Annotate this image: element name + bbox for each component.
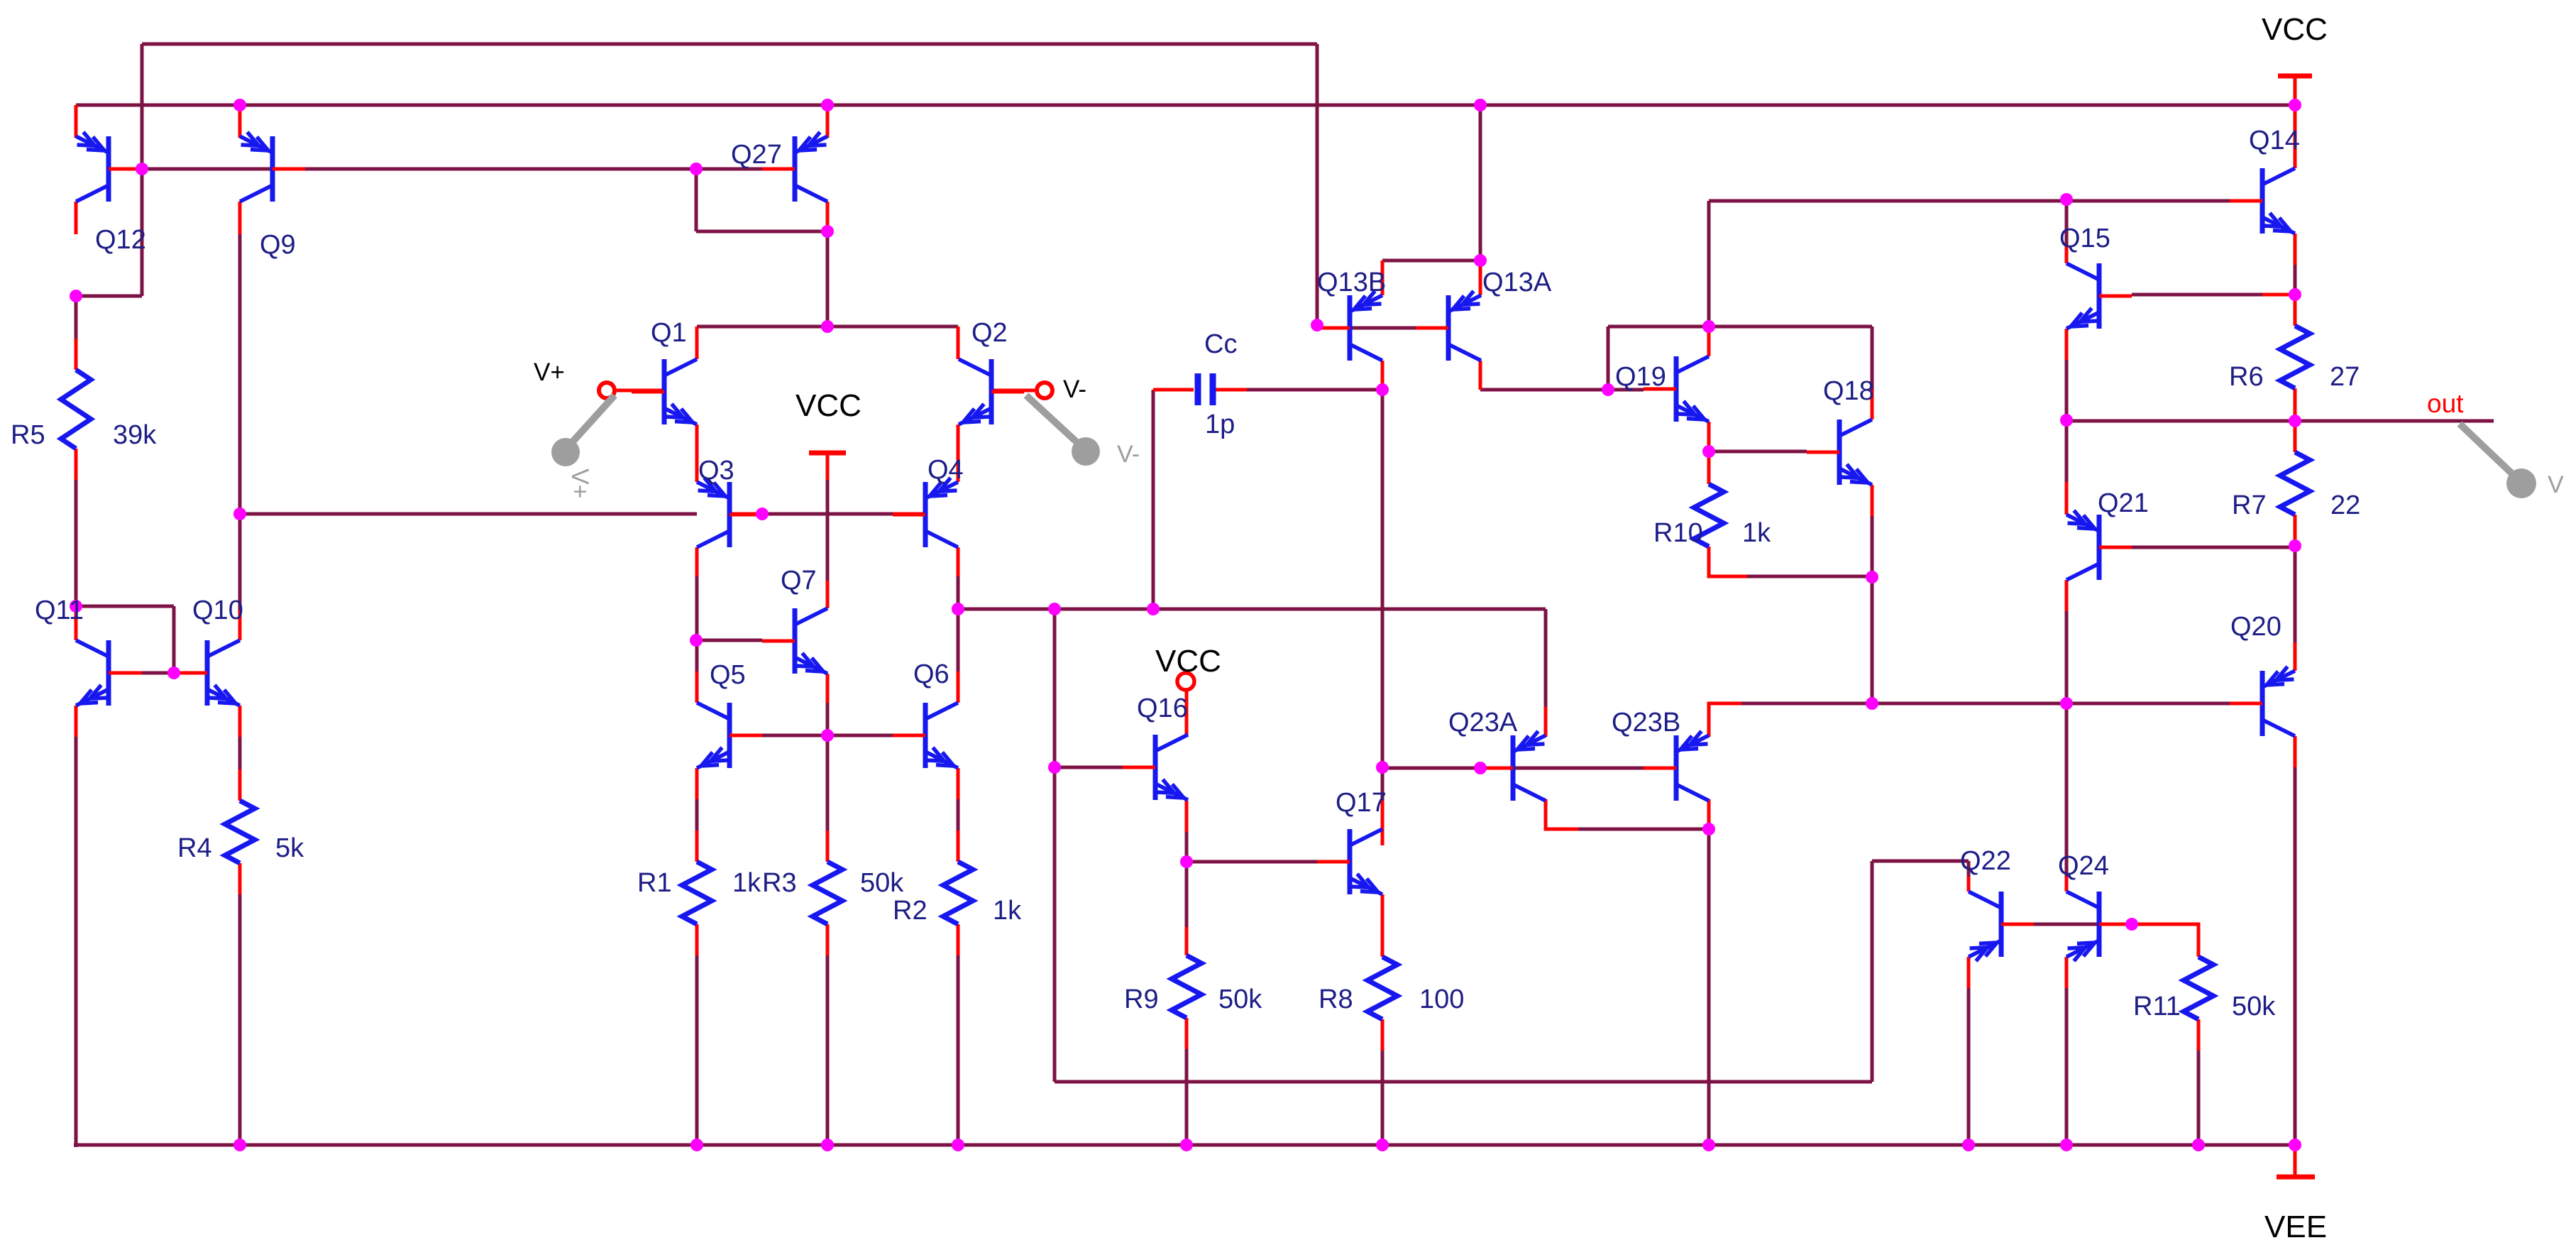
wire Q16 base vertical <box>1053 609 1057 1082</box>
node R3 on VEE rail <box>821 1139 834 1151</box>
svg-text:1k: 1k <box>1742 518 1771 548</box>
red stub Q17 collector <box>1381 801 1385 845</box>
terminal V- <box>1037 383 1052 398</box>
svg-text:R11: R11 <box>2133 992 2181 1021</box>
red stub R9 bottom <box>1185 1018 1189 1049</box>
wire Cc right lead <box>1247 388 1382 392</box>
svg-text:Q27: Q27 <box>731 140 782 170</box>
red stub R3 top <box>826 830 830 862</box>
red stub Q13B collector <box>1381 361 1385 390</box>
wire Q17 collector segment <box>1381 767 1385 801</box>
svg-text:V+: V+ <box>566 468 593 499</box>
wire Q22 collector top run <box>1872 860 1969 863</box>
svg-text:R5: R5 <box>11 420 45 450</box>
svg-text:Q10: Q10 <box>192 596 243 625</box>
node Q27 base-collector <box>690 163 703 175</box>
node Q17 collector junction <box>1376 761 1389 774</box>
capacitor Cc <box>1198 373 1213 405</box>
red stub Q1-Q3 emitters <box>695 424 699 482</box>
red stub R5 top <box>75 339 78 370</box>
wire R8 bottom to VEE <box>1381 1051 1385 1145</box>
resistor R4 <box>225 801 255 863</box>
wire Q22 collector riser <box>1871 861 1874 1082</box>
node Q9 emitter on VCC rail <box>233 99 246 111</box>
resistor R11 <box>2184 957 2213 1019</box>
node Q13 emitters on VCC rail <box>1474 99 1487 111</box>
red stub Q4 base <box>893 512 925 516</box>
node Q24 emitter on VEE rail <box>2060 1139 2073 1151</box>
wire R11 bottom to VEE <box>2197 1051 2201 1145</box>
wire R2 bottom to VEE <box>957 955 960 1145</box>
wire Cc left vertical <box>1152 390 1155 609</box>
transistor Q1 <box>632 359 697 424</box>
power VCC terminal Q16 <box>1177 673 1194 690</box>
node Q22 emitter on VEE rail <box>1962 1139 1975 1151</box>
wire Q21 collector to Q24 collector <box>2065 611 2069 877</box>
red lead Q1 base <box>617 389 664 393</box>
red lead Cc right <box>1215 388 1247 392</box>
node Q21 collector junction <box>2060 697 2073 710</box>
svg-text:V: V <box>2548 471 2564 498</box>
wire Q16 emitter to Q17 base <box>1187 860 1317 864</box>
svg-text:VCC: VCC <box>796 388 862 423</box>
wire Q9 base bus <box>142 168 696 171</box>
wire VCC rail <box>76 104 2295 107</box>
transistor Q23B <box>1644 731 1709 801</box>
red stub R2 bottom <box>957 924 960 955</box>
node VCC stem on rail <box>2289 99 2301 111</box>
svg-text:VEE: VEE <box>2264 1210 2327 1244</box>
node Q5 base junction <box>821 729 834 742</box>
red lead Cc left <box>1153 388 1194 392</box>
wire Q1-Q2 collector bus <box>697 325 958 329</box>
wire Q3 collector vertical <box>695 576 699 671</box>
wire R5 bottom segment <box>75 480 78 606</box>
red stub Q13A base <box>1416 327 1448 330</box>
red stub Q1 collector <box>695 327 699 359</box>
wire Q23A emitter riser <box>1544 609 1548 707</box>
transistor Q2 <box>959 359 1024 424</box>
red stub Q3 collector <box>695 547 699 576</box>
red stub Q21 collector <box>2065 580 2069 611</box>
red elbow R10 bottom <box>1709 547 1747 576</box>
transistor Q6 <box>893 703 958 768</box>
wire Q7 emitter to Q5 base node <box>826 703 830 735</box>
transistor Q4 <box>893 478 958 547</box>
svg-text:R8: R8 <box>1319 985 1353 1014</box>
wire R9 bottom to VEE <box>1185 1049 1189 1145</box>
svg-text:R1: R1 <box>637 868 672 898</box>
svg-text:Q20: Q20 <box>2230 612 2281 642</box>
svg-text:Q21: Q21 <box>2098 488 2149 518</box>
node Q27 collector junction <box>821 225 834 238</box>
red stub R2 top <box>957 830 960 862</box>
red stub Q10 emitter <box>238 706 242 737</box>
red stub Q15 collector <box>2065 245 2069 263</box>
red stub Q19 collector <box>1707 327 1711 356</box>
svg-text:1k: 1k <box>732 868 761 898</box>
resistor R8 <box>1367 957 1397 1019</box>
power VCC bar top right <box>2278 74 2312 79</box>
svg-text:Q14: Q14 <box>2249 126 2300 155</box>
node Q24 base junction <box>2125 918 2138 931</box>
red stub R4 top <box>238 769 242 801</box>
red stub Q12 emitter <box>75 105 78 138</box>
svg-text:Q6: Q6 <box>913 659 950 689</box>
node Q13B emitter junction <box>1474 254 1487 267</box>
resistor R3 <box>813 862 842 924</box>
red stub Q24 collector <box>2065 877 2069 892</box>
wire Q18 emitter drop <box>1871 577 1874 703</box>
wire Q20 emitter segment <box>2294 546 2297 642</box>
red stub Q15 base right <box>2262 293 2295 297</box>
probe out <box>2460 424 2536 498</box>
svg-text:Q19: Q19 <box>1615 362 1666 392</box>
transistor Q19 <box>1644 356 1709 422</box>
svg-text:R9: R9 <box>1124 985 1159 1014</box>
transistor Q17 <box>1317 829 1382 894</box>
power VCC bar mid <box>809 451 846 456</box>
wire Q13B collector to Q17 collector <box>1381 390 1385 767</box>
red stub R5 bottom <box>75 449 78 480</box>
wire Q4 collector vertical <box>957 576 960 609</box>
transistor Q16 <box>1123 735 1188 800</box>
transistor Q21 <box>2066 510 2132 580</box>
probe V- input <box>1026 395 1100 466</box>
svg-text:Q18: Q18 <box>1823 376 1874 406</box>
wire Q11 base link <box>76 605 174 608</box>
wire R1 bottom to VEE <box>695 955 699 1145</box>
red stub Q23B collector <box>1707 799 1711 830</box>
transistor Q22 <box>1969 892 2034 961</box>
svg-text:Q23A: Q23A <box>1448 708 1518 738</box>
node Q16 base riser top <box>1048 603 1061 615</box>
transistor Q9 <box>240 132 305 202</box>
wire R9 top segment <box>1185 862 1189 927</box>
wire Q21 base bus <box>2132 546 2295 549</box>
node Q16 emitter junction <box>1180 855 1193 868</box>
node out junction <box>2289 415 2301 427</box>
red stub R8 bottom <box>1381 1019 1385 1051</box>
red stub Q27 collector <box>826 202 830 231</box>
red stub R1 top <box>695 830 699 862</box>
node Q23 base wire junction <box>1474 762 1487 774</box>
svg-text:Q4: Q4 <box>928 455 964 485</box>
wire Q3 base bus right <box>762 512 893 516</box>
red stub R6 top <box>2294 295 2297 326</box>
node Q3/Q4 base tap <box>233 508 246 520</box>
red lead Q2 base <box>991 389 1035 393</box>
transistor Q20 <box>2230 667 2295 736</box>
red stub Q22 collector <box>1967 877 1971 892</box>
node Q4 collector junction <box>952 603 964 615</box>
red stub Q5 collector <box>695 671 699 703</box>
svg-text:Q13B: Q13B <box>1317 268 1386 297</box>
svg-text:Q13A: Q13A <box>1482 268 1552 297</box>
svg-text:R7: R7 <box>2232 490 2267 520</box>
wire Q16 emitter segment <box>1185 832 1189 862</box>
transistor Q18 <box>1807 420 1872 485</box>
node Q13B base junction <box>1311 319 1323 331</box>
wire Q13A collector run <box>1480 388 1644 392</box>
svg-text:Q5: Q5 <box>710 660 746 690</box>
wire Q27 net vertical <box>695 169 698 231</box>
transistor Q12 <box>76 132 141 202</box>
wire Q17 base bus right <box>1382 767 1644 770</box>
wire Q16 base link <box>1057 766 1123 769</box>
node Q7 base tap <box>690 634 703 647</box>
red stub Q11 emitter <box>75 706 78 737</box>
wire Q24 emitter to VEE <box>2065 988 2069 1145</box>
node R7 bottom junction <box>2289 539 2301 552</box>
svg-text:Q22: Q22 <box>1960 846 2011 876</box>
svg-text:Q12: Q12 <box>95 225 146 255</box>
wire Q27 net horizontal <box>696 230 827 234</box>
red stub Q18 emitter <box>1871 485 1874 516</box>
resistor R10 <box>1694 484 1724 547</box>
power VEE bar bottom right <box>2277 1145 2315 1177</box>
wire Q6 emitter to R2 <box>957 799 960 830</box>
transistor Q3 <box>697 478 762 547</box>
red stub Q9 collector <box>238 202 242 234</box>
wire Q12 collector-base vertical <box>141 44 144 296</box>
red stub Q7 emitter <box>826 674 830 703</box>
wire Q15 base bus <box>2132 293 2262 297</box>
red stub Q10 collector <box>238 610 242 640</box>
red stub Q13A collector <box>1479 361 1482 390</box>
wire VCC stem mid <box>826 480 830 581</box>
resistor R9 <box>1172 955 1201 1018</box>
transistor Q24 <box>2066 892 2132 961</box>
transistor Q11 <box>76 640 141 706</box>
wire Q22 collector long run <box>1055 1080 1872 1084</box>
red stub VCC mid stem <box>826 454 830 480</box>
wire Q5 emitter to R1 <box>695 799 699 830</box>
red stub Q6 emitter <box>957 768 960 799</box>
red stub Q13B emitter <box>1381 261 1385 295</box>
wire Q18 emitter segment <box>1871 516 1874 577</box>
svg-text:V-: V- <box>1063 375 1086 403</box>
svg-text:1k: 1k <box>993 896 1022 926</box>
svg-text:50k: 50k <box>1218 985 1262 1014</box>
node Q19 collector junction <box>1702 320 1715 333</box>
node Q16 base tap <box>1048 761 1061 774</box>
wire second stage node bus <box>958 608 1546 611</box>
red stub Q3 base <box>730 512 762 516</box>
resistor R7 <box>2280 452 2310 515</box>
wire Q13B base vertical <box>1316 44 1319 325</box>
red elbow R11 top <box>2132 924 2198 957</box>
red stub R7 bottom <box>2294 515 2297 546</box>
wire Q13A emitter vertical <box>1479 105 1482 261</box>
node Q15 collector junction <box>2060 193 2073 206</box>
svg-text:R10: R10 <box>1653 518 1703 548</box>
wire Q20 collector to VEE <box>2294 767 2297 1145</box>
red stub Q4 collector <box>957 547 960 576</box>
wire Q27 collector drop <box>826 231 830 327</box>
wire Q22/Q24 base bus <box>2034 923 2198 926</box>
node R2 on VEE rail <box>952 1139 964 1151</box>
svg-text:Q7: Q7 <box>781 566 817 596</box>
probe V+ input <box>551 395 615 466</box>
red stub Q23A emitter <box>1544 707 1548 737</box>
resistor R1 <box>682 862 712 924</box>
wire Q14 emitter segment <box>2294 265 2297 295</box>
svg-text:Q17: Q17 <box>1336 788 1387 818</box>
node Q18 emitter junction <box>1866 697 1878 710</box>
svg-text:V-: V- <box>1117 441 1140 468</box>
red stub Q17 emitter to R8 <box>1381 894 1385 957</box>
red stub R11 bottom <box>2197 1019 2201 1051</box>
wire Q11-Q10 base <box>142 671 174 675</box>
wire Q18 collector run <box>1709 325 1872 329</box>
transistor Q10 <box>175 640 240 706</box>
red stub Q14 emitter <box>2294 234 2297 265</box>
red stub Q15 emitter <box>2065 329 2069 360</box>
red stub Q19 emitter <box>1707 422 1711 451</box>
red stub R7 top <box>2294 421 2297 452</box>
wire Q11 base vertical <box>172 606 176 673</box>
wire Q22 collector segment <box>1967 861 1971 877</box>
wire Q21 emitter segment <box>2065 420 2069 482</box>
svg-text:out: out <box>2427 389 2464 418</box>
node R1 on VEE rail <box>690 1139 703 1151</box>
red stub Q2 collector <box>957 327 960 359</box>
red stub Q9 emitter <box>238 105 242 138</box>
red stub R3 bottom <box>826 924 830 955</box>
wire Q19 emitter to Q18 base <box>1709 450 1807 454</box>
wire Q13B emitter elbow <box>1382 259 1480 263</box>
node R11 on VEE rail <box>2192 1139 2205 1151</box>
transistor Q14 <box>2230 168 2295 234</box>
node Q12 collector junction <box>70 290 82 302</box>
svg-text:Q15: Q15 <box>2059 224 2110 253</box>
red stub Q21 emitter <box>2065 482 2069 515</box>
wire Q15 emitter segment <box>2065 360 2069 420</box>
svg-text:R6: R6 <box>2229 362 2264 392</box>
wire Q14 base riser <box>1707 201 1711 327</box>
svg-text:Cc: Cc <box>1204 329 1237 359</box>
svg-text:V+: V+ <box>534 358 565 386</box>
wire Q12/Q13 base bus top rail <box>142 43 1317 46</box>
wire Q14 base run <box>1709 199 2066 203</box>
node Q15 emitter junction <box>2060 414 2073 427</box>
wire R5 top segment <box>75 296 78 339</box>
transistor Q27 <box>762 132 827 202</box>
wire Q23 collectors to VEE <box>1707 829 1711 1145</box>
wire Q5/Q6 base bus <box>762 734 893 738</box>
wire Q10 emitter segment <box>238 737 242 769</box>
node R10 to Q18 emitter <box>1866 571 1878 583</box>
node Q27 emitter on VCC rail <box>821 99 834 111</box>
transistor Q23A <box>1480 731 1546 801</box>
wire Q3/Q4 base bus <box>240 512 697 516</box>
red stub Q9 base <box>273 168 305 171</box>
resistor R2 <box>943 862 973 924</box>
svg-text:Q11: Q11 <box>35 596 84 625</box>
transistor Q5 <box>697 703 762 768</box>
wire VEE rail <box>74 1144 2295 1147</box>
node R8 on VEE rail <box>1376 1139 1389 1151</box>
red stub Q16 collector <box>1185 691 1189 735</box>
red stub Q23B base <box>1644 767 1676 770</box>
red stub Q7 collector <box>826 581 830 608</box>
red stub Q13A emitter <box>1479 261 1482 295</box>
red stub Q20 emitter <box>2294 642 2297 671</box>
red stub Q27 emitter <box>826 106 830 138</box>
wire Q12 collector elbow <box>76 295 142 298</box>
svg-text:R2: R2 <box>893 896 928 926</box>
svg-text:Q9: Q9 <box>260 230 296 260</box>
red stub Q18 collector <box>1871 390 1874 420</box>
red stub Q16 emitter <box>1185 801 1189 832</box>
wire Q20 base bus <box>1741 702 2230 706</box>
wire Q19 net horizontal <box>1608 325 1709 329</box>
resistor R6 <box>2280 326 2310 388</box>
svg-text:VCC: VCC <box>1155 644 1221 679</box>
transistor Q15 <box>2066 263 2132 329</box>
svg-text:Q23B: Q23B <box>1612 708 1680 738</box>
wire Q27 base link <box>696 168 762 171</box>
red elbow Q23B emitter <box>1709 703 1741 737</box>
transistor Q13B <box>1317 291 1382 361</box>
wire R3 top segment <box>826 735 830 830</box>
node Q11/Q10 base junction <box>167 667 180 679</box>
wire Q9/Q10 collector vertical <box>238 234 242 610</box>
wire Q15 collector segment <box>2065 199 2069 245</box>
svg-text:50k: 50k <box>860 868 904 898</box>
svg-text:Q3: Q3 <box>698 456 734 486</box>
red elbow Q23A collector <box>1546 799 1578 829</box>
svg-text:Q24: Q24 <box>2058 851 2109 881</box>
red stub Q10 base link <box>174 671 207 675</box>
red stub R6 bottom <box>2294 388 2297 421</box>
red stub Q5 emitter <box>695 768 699 799</box>
svg-text:Q1: Q1 <box>651 318 687 348</box>
svg-text:22: 22 <box>2330 490 2360 520</box>
svg-text:Q2: Q2 <box>971 318 1008 348</box>
red stub Q14 collector <box>2294 78 2297 168</box>
transistor Q7 <box>762 608 827 674</box>
red stub Q11 collector <box>75 608 78 640</box>
node Q11 collector junction <box>70 600 82 613</box>
wire Q11 emitter to VEE <box>75 737 78 1147</box>
node Q3 base junction <box>756 508 769 520</box>
wire Q19 net vertical <box>1607 327 1610 390</box>
red stub R9 top <box>1185 927 1189 955</box>
wire Q23A collector run <box>1578 828 1709 831</box>
svg-text:5k: 5k <box>275 833 304 863</box>
red stub Q2-Q4 emitters <box>957 424 960 482</box>
node Q19 emitter junction <box>1702 445 1715 458</box>
red stub Q22 emitter <box>1967 957 1971 988</box>
red stub Q20 collector <box>2294 736 2297 767</box>
red stub R10 top <box>1707 451 1711 484</box>
wire R10 bottom run <box>1747 575 1872 579</box>
node VEE on rail <box>2289 1139 2301 1151</box>
wire Q6 collector vertical <box>957 609 960 671</box>
red stub Q11 base link <box>109 671 142 675</box>
node Q27 to input collectors <box>821 320 834 333</box>
node R4 on VEE rail <box>233 1139 246 1151</box>
node Q14 emitter junction <box>2289 288 2301 301</box>
node Q23 collectors junction <box>1702 823 1715 835</box>
terminal V+ <box>599 383 615 398</box>
node Q23 on VEE rail <box>1702 1139 1715 1151</box>
node Cc left junction <box>1147 603 1160 615</box>
red stub Q12 collector <box>75 202 78 234</box>
wire R4 bottom to VEE <box>238 894 242 1145</box>
